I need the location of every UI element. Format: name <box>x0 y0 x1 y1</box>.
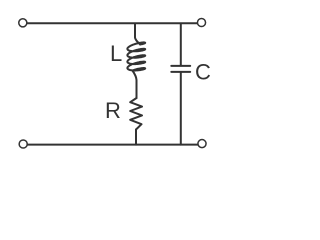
wire top <box>27 22 197 24</box>
resistor R <box>130 98 142 130</box>
wire R bottom lead <box>135 130 137 145</box>
svg-text:R: R <box>105 98 121 123</box>
svg-text:L: L <box>110 41 122 66</box>
wire L-R <box>132 71 136 99</box>
svg-text:C: C <box>195 59 211 84</box>
capacitor C plate bottom <box>171 71 190 73</box>
terminal top-right <box>197 18 205 26</box>
wire C top lead <box>180 24 182 65</box>
wire bottom <box>27 144 198 146</box>
wire C bottom lead <box>180 73 182 145</box>
capacitor C plate top <box>171 65 190 67</box>
terminal bottom-left <box>19 140 27 148</box>
inductor L <box>127 42 145 70</box>
terminal top-left <box>19 19 27 27</box>
wire L top lead <box>135 24 140 45</box>
terminal bottom-right <box>198 140 206 148</box>
